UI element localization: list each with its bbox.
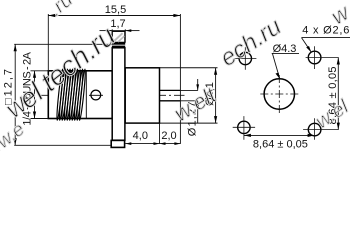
crosshair bottom-right hole / extensions bbox=[303, 129, 339, 131]
watermark bbox=[0, 0, 350, 161]
center pin bbox=[160, 89, 181, 91]
svg-text:4,0: 4,0 bbox=[133, 130, 148, 142]
top end: nut box bbox=[112, 31, 125, 42]
dim diameter 4,1 bbox=[215, 68, 217, 123]
svg-text:15,5: 15,5 bbox=[105, 4, 126, 16]
crosshair top-left hole bbox=[234, 57, 256, 59]
crosshair bottom-left hole / extension to bottom dim bbox=[233, 126, 255, 128]
bottom end box bbox=[111, 140, 124, 147]
dim 15,5 bbox=[47, 14, 49, 71]
threads bbox=[56, 69, 86, 121]
flange plate (edge-on) bbox=[112, 48, 125, 140]
axis centerline bbox=[41, 94, 185, 96]
svg-text:2,0: 2,0 bbox=[161, 130, 176, 142]
mounting hole top-left bbox=[239, 52, 251, 64]
right dim 8,64 bbox=[337, 58, 339, 130]
mounting hole bottom-left bbox=[238, 121, 250, 133]
rear body bbox=[125, 68, 159, 123]
thread runout line bbox=[85, 71, 87, 119]
svg-text:1,7: 1,7 bbox=[110, 18, 125, 30]
dim 1/4-36UNS-2A bbox=[31, 70, 49, 72]
dims 4,0 / 2,0 bbox=[159, 123, 161, 144]
crosshair top-right hole / extension to right dim bbox=[306, 57, 339, 59]
mounting hole bottom-right bbox=[308, 123, 321, 136]
center circle bbox=[264, 79, 294, 109]
rear body edges extended (Ø4,1 extension lines) bbox=[160, 67, 218, 69]
svg-text:8,64 ± 0,05: 8,64 ± 0,05 bbox=[253, 139, 308, 151]
dim square 12,7 bbox=[14, 43, 112, 45]
connector body (threaded barrel) bbox=[48, 71, 112, 119]
bottom dim 8,64 bbox=[244, 134, 315, 136]
dim 1,7 bbox=[111, 29, 113, 31]
solder hole on body bbox=[91, 90, 101, 100]
mounting hole top-right bbox=[308, 51, 321, 64]
mounting holes bbox=[238, 51, 321, 136]
pin edge extension lines bbox=[180, 89, 198, 91]
dim diameter 1,27 bbox=[197, 79, 199, 90]
washer: two black bands bbox=[112, 42, 125, 44]
hole crosshairs bbox=[233, 46, 339, 140]
